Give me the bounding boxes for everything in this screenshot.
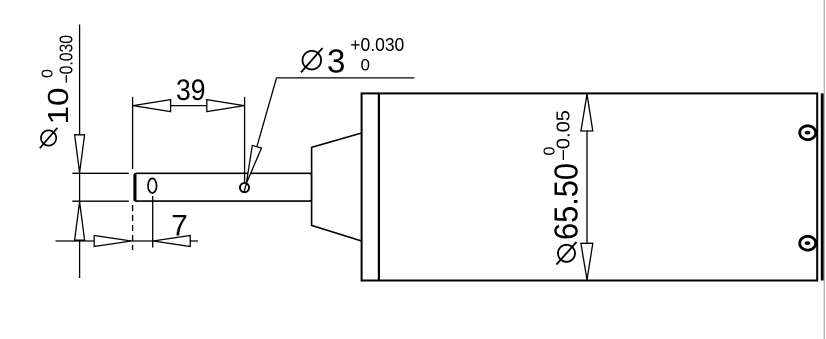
dim D65.50 tolerance upper 0 — [542, 147, 559, 156]
svg-text:+0.030: +0.030 — [350, 34, 404, 55]
body inner flange line — [378, 93, 380, 280]
flange cone between shaft and body — [312, 133, 362, 241]
dim D10 extension line top — [72, 172, 129, 174]
dim 39 arrow right — [207, 100, 244, 112]
shaft body outline — [134, 173, 311, 201]
dim 39 dimension line — [133, 105, 245, 107]
dim D3 leader arrow — [246, 145, 261, 183]
svg-text:3: 3 — [327, 43, 345, 80]
dim D10 arrow up — [75, 202, 85, 240]
cross hole circle on shaft — [240, 183, 249, 192]
dim D3 shoulder underline — [277, 77, 415, 79]
dim D10 diameter symbol — [40, 128, 58, 148]
screw top-right — [800, 126, 816, 140]
dim D65.50 tolerance lower -0.05 — [553, 110, 574, 161]
dim D10 tolerance lower -0.030 — [56, 35, 77, 84]
keyway slot ellipse on shaft — [148, 178, 157, 193]
dim D65.50 arrow down — [581, 243, 593, 279]
svg-text:7: 7 — [171, 210, 188, 243]
dim 7 dimension line — [56, 240, 199, 242]
svg-text:65.50: 65.50 — [548, 163, 585, 240]
dim 39 extension line right — [244, 97, 246, 183]
screw bottom-right — [800, 236, 816, 250]
dim D3 text value 3 — [327, 43, 345, 80]
svg-text:39: 39 — [176, 74, 206, 107]
dim 7 arrow pointing left — [153, 236, 190, 247]
dim D10 arrow down — [75, 135, 85, 173]
dim D10 tolerance upper 0 — [40, 69, 57, 78]
svg-text:−0.05: −0.05 — [553, 110, 574, 161]
motor main body rectangle — [362, 93, 818, 280]
dim D3 tolerance upper +0.030 — [350, 34, 404, 55]
dim D10 text value 10 — [43, 88, 75, 125]
dim D10 dimension line vertical — [79, 25, 81, 279]
svg-text:−0.030: −0.030 — [56, 35, 77, 84]
dim 7 extension line right — [152, 196, 154, 248]
dim 39 text — [176, 74, 206, 107]
dim 7 text — [171, 210, 188, 243]
viewport light edge line — [823, 0, 825, 339]
dim D65.50 diameter symbol — [557, 242, 577, 265]
dim D65.50 dimension line vertical — [586, 94, 588, 280]
dim D10 extension line bottom — [72, 200, 129, 202]
dim 39 arrow left — [133, 100, 170, 112]
dim 7 arrow pointing right — [94, 236, 131, 247]
svg-text:0: 0 — [40, 69, 57, 78]
dim D3 tolerance lower 0 — [361, 56, 370, 75]
svg-text:10: 10 — [43, 88, 75, 125]
dim D65.50 arrow up — [581, 94, 593, 131]
dim D3 leader line — [244, 78, 277, 192]
body rear plate edge line — [821, 93, 824, 280]
svg-text:0: 0 — [361, 56, 370, 75]
dim D65.50 text value 65.50 — [548, 163, 585, 240]
dim 39 extension line left dashed — [132, 97, 134, 250]
dim D3 diameter symbol — [301, 48, 323, 72]
